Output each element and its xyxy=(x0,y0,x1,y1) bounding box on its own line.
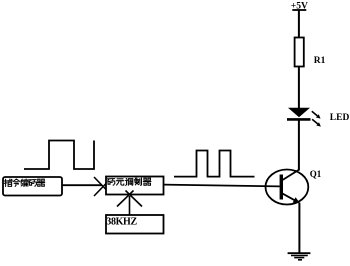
resistor R1 body xyxy=(295,38,304,67)
waveform: modulated pulses xyxy=(174,151,255,177)
block: carrier modulator box xyxy=(106,177,164,195)
block: instruction encoder box xyxy=(3,177,62,196)
LED D1 anode triangle xyxy=(288,108,310,117)
glyph 码 xyxy=(29,180,37,187)
transistor Q1 base bar xyxy=(280,175,283,200)
LED emission arrow 1 xyxy=(312,111,321,118)
label 码元调制器 (drawn glyphs) xyxy=(107,178,151,186)
svg-text:Q1: Q1 xyxy=(310,169,322,179)
power rail bar xyxy=(292,9,306,11)
label 指令编码器 (drawn glyphs) xyxy=(4,179,45,187)
wire 38KHZ oscillator to modulator xyxy=(129,196,131,215)
glyph 制 xyxy=(135,178,142,186)
svg-text:38KHZ: 38KHZ xyxy=(106,217,137,228)
glyph 令 xyxy=(13,179,20,186)
wire LED to Q1 collector xyxy=(298,120,300,170)
wire Q1 emitter to ground xyxy=(298,203,300,253)
waveform: command pulse above encoder xyxy=(24,141,94,170)
block: 38KHZ oscillator box xyxy=(106,215,164,234)
ground xyxy=(288,253,311,260)
svg-text:R1: R1 xyxy=(314,56,326,66)
transistor Q1 emitter stroke with arrow xyxy=(283,194,301,204)
glyph 码 xyxy=(107,179,115,186)
arrowhead into modulator bottom xyxy=(117,191,142,207)
wire R1 to LED xyxy=(298,67,300,109)
LED cathode bar xyxy=(287,118,311,121)
glyph 元 xyxy=(117,179,124,185)
glyph 调 xyxy=(126,178,133,185)
transistor Q1 body circle xyxy=(266,170,309,205)
wire modulator to Q1 base xyxy=(164,185,280,187)
svg-text:LED: LED xyxy=(330,113,350,123)
arrowhead into modulator xyxy=(94,177,108,196)
glyph 指 xyxy=(4,179,12,187)
wire +5V to R1 xyxy=(298,10,300,38)
glyph 编 xyxy=(21,179,28,187)
glyph 器 xyxy=(37,179,45,186)
LED emission arrow 2 xyxy=(312,119,321,126)
transistor Q1 collector stroke xyxy=(283,169,300,180)
wire encoder to modulator xyxy=(62,184,102,186)
glyph 器 xyxy=(143,178,151,185)
